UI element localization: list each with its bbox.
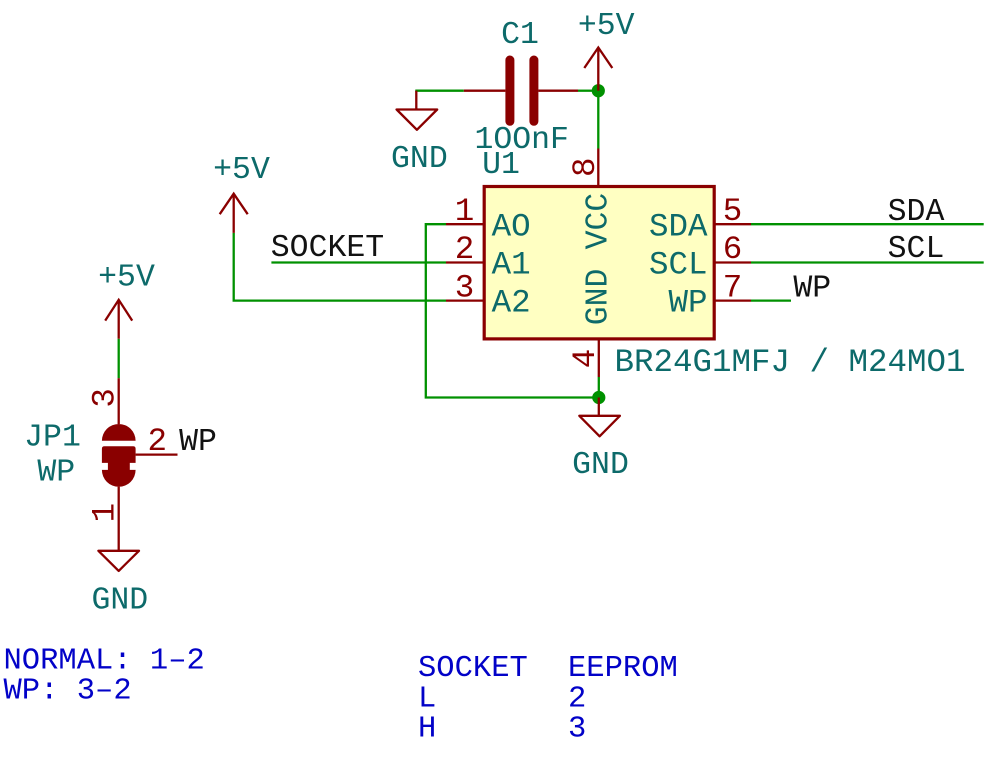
label +5V (left)	[213, 153, 270, 188]
label GND (JP1)	[91, 584, 148, 619]
label 100nF	[474, 123, 569, 158]
svg-text:BR24G1MFJ / M24MO1: BR24G1MFJ / M24MO1	[615, 344, 966, 381]
svg-text:U1: U1	[482, 148, 520, 183]
svg-text:NORMAL: 1–2: NORMAL: 1–2	[4, 644, 205, 678]
svg-text:WP: WP	[793, 272, 831, 307]
pin 3 A2	[446, 269, 531, 321]
wire +5V to A2	[234, 233, 446, 301]
wire SOCKET to A1	[271, 261, 446, 263]
svg-text:+5V: +5V	[98, 260, 155, 295]
svg-text:5: 5	[723, 193, 743, 230]
wire GND to C1 left	[415, 90, 464, 92]
svg-text:SOCKET: SOCKET	[271, 231, 384, 266]
label GND (below U1)	[572, 448, 629, 483]
svg-text:SCL: SCL	[649, 247, 708, 284]
ground (JP1)	[98, 551, 139, 571]
op-amp U1 body	[484, 187, 714, 339]
label +5V (top)	[578, 9, 635, 44]
svg-text:GND: GND	[391, 142, 448, 177]
note table SOCKET column	[418, 652, 528, 746]
note WP: 3-2	[4, 674, 132, 708]
svg-text:JP1: JP1	[24, 420, 81, 455]
pin 2 A1	[446, 231, 531, 283]
label C1	[501, 18, 539, 53]
svg-text:SOCKET: SOCKET	[418, 652, 528, 686]
pin number 3 (JP1)	[87, 388, 124, 408]
svg-text:8: 8	[567, 157, 604, 177]
power +5V (top)	[584, 48, 612, 91]
svg-text:EEPROM: EEPROM	[568, 652, 678, 686]
svg-text:SCL: SCL	[888, 232, 945, 267]
svg-text:A2: A2	[492, 285, 531, 322]
svg-text:L: L	[418, 682, 436, 716]
label SCL net	[888, 232, 945, 267]
wire pin4 to junction	[598, 377, 600, 398]
label SOCKET net	[271, 231, 384, 266]
svg-text:1: 1	[87, 503, 124, 523]
pin 7 WP	[668, 269, 751, 321]
label GND (left of C1)	[391, 142, 448, 177]
svg-text:WP: WP	[37, 455, 75, 490]
svg-text:4: 4	[567, 349, 604, 369]
wire JP1 pin3 to +5V	[118, 339, 120, 379]
pin 4 GND	[567, 269, 617, 377]
svg-text:2: 2	[147, 423, 167, 460]
svg-text:GND: GND	[582, 269, 617, 326]
junction dot at C1/+5V/VCC node	[592, 84, 605, 97]
note table EEPROM column	[568, 652, 678, 746]
pin 6 SCL	[649, 231, 751, 283]
label BR24G1MFJ / M24MO1	[615, 344, 966, 381]
svg-text:VCC: VCC	[582, 193, 617, 250]
power +5V (left, to A2)	[220, 194, 248, 233]
junction dot at GND node below U1	[592, 391, 605, 404]
label U1	[482, 148, 520, 183]
wire WP	[751, 299, 791, 301]
svg-text:3: 3	[87, 388, 124, 408]
svg-text:3: 3	[568, 712, 586, 746]
note NORMAL: 1-2	[4, 644, 205, 678]
pin 5 SDA	[649, 193, 751, 245]
svg-text:+5V: +5V	[578, 9, 635, 44]
svg-text:SDA: SDA	[649, 208, 708, 245]
wire A0 to ground net (L-shape)	[426, 224, 599, 397]
svg-text:WP: WP	[668, 285, 707, 322]
svg-text:WP: WP	[179, 425, 217, 460]
svg-text:WP: 3–2: WP: 3–2	[4, 674, 132, 708]
svg-text:C1: C1	[501, 18, 539, 53]
svg-text:+5V: +5V	[213, 153, 270, 188]
wire junction down to pin 8	[597, 91, 599, 149]
label SDA net	[888, 195, 945, 230]
ground (below U1)	[579, 398, 620, 437]
label +5V (JP1)	[98, 260, 155, 295]
pin 1 A0	[446, 193, 531, 245]
pin number 1 (JP1)	[87, 503, 124, 523]
jumper JP1	[102, 378, 178, 551]
svg-text:2: 2	[455, 231, 475, 268]
pin 8 VCC	[567, 149, 617, 250]
svg-text:SDA: SDA	[888, 195, 945, 230]
ground (left of C1)	[397, 91, 438, 130]
wire SCL	[751, 261, 984, 263]
label WP (JP1 value)	[37, 455, 75, 490]
svg-text:H: H	[418, 712, 436, 746]
capacitor C1	[464, 60, 578, 121]
svg-text:GND: GND	[91, 584, 148, 619]
svg-text:AO: AO	[492, 208, 531, 245]
svg-text:2: 2	[568, 682, 586, 716]
wire C1 right to junction	[578, 90, 594, 92]
svg-text:1: 1	[455, 193, 475, 230]
label WP net (JP1 pin2)	[179, 425, 217, 460]
svg-text:7: 7	[723, 269, 743, 306]
label WP net (right)	[793, 272, 831, 307]
svg-text:A1: A1	[492, 247, 531, 284]
pin number 2 (JP1)	[147, 423, 167, 460]
svg-text:6: 6	[723, 231, 743, 268]
label JP1	[24, 420, 81, 455]
svg-text:3: 3	[455, 269, 475, 306]
power +5V (JP1)	[105, 300, 132, 339]
wire SDA	[751, 223, 984, 225]
svg-text:GND: GND	[572, 448, 629, 483]
